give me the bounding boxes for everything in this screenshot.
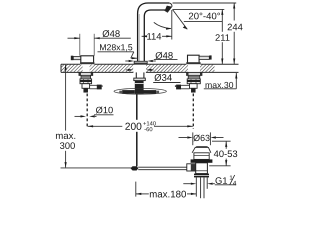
label G1 1/4 bbox=[183, 183, 191, 185]
top extension line bbox=[173, 2, 237, 4]
label 20-40 bbox=[189, 13, 220, 20]
left hose dashed bbox=[86, 94, 88, 127]
angle leader diagonal bbox=[172, 9, 187, 29]
linkage double rod bbox=[138, 166, 187, 168]
left valve lower body bbox=[82, 84, 90, 89]
linkage thin rod left bbox=[61, 167, 132, 169]
lens right nub bbox=[156, 91, 159, 93]
drain flange band bbox=[191, 159, 213, 162]
lens dark bar right bbox=[143, 90, 156, 94]
deck top line bbox=[61, 63, 239, 65]
right valve threads bbox=[188, 75, 200, 79]
drain pivot bbox=[187, 164, 196, 171]
deck hatched zones bbox=[62, 65, 83, 73]
drain plug cap bbox=[195, 146, 208, 150]
left valve flange nut bbox=[79, 72, 93, 75]
lens dark bar left bbox=[122, 90, 135, 94]
right valve bottom tip bbox=[191, 88, 195, 92]
right handle base bbox=[186, 62, 200, 64]
pull rod bbox=[136, 94, 138, 166]
left handle lever arm bbox=[73, 57, 81, 60]
label M28x1,5 bbox=[100, 44, 132, 51]
label O10 bbox=[96, 107, 113, 114]
left valve side pipe bbox=[90, 84, 97, 86]
dimension O48 handle bbox=[79, 34, 81, 56]
spout escutcheon bbox=[134, 61, 147, 64]
right valve hex nut bbox=[187, 79, 200, 84]
angle arc leader bbox=[154, 22, 171, 28]
right handle body bbox=[188, 55, 200, 63]
drain mid body bbox=[196, 163, 208, 174]
dimension O63 bbox=[192, 132, 194, 145]
spout outlet mousseur bbox=[165, 3, 172, 12]
center nut bbox=[135, 81, 144, 89]
spout tube bbox=[138, 3, 170, 64]
drain tailpiece bbox=[195, 177, 197, 196]
left handle base bbox=[80, 62, 94, 64]
outlet extension line bbox=[173, 8, 224, 10]
spout inner shading line bbox=[138, 14, 140, 64]
drain shoulders bbox=[192, 147, 211, 152]
center dark block bbox=[135, 88, 144, 94]
center flange bbox=[134, 78, 146, 81]
dimension 200 bbox=[88, 125, 123, 127]
label max.30 bbox=[206, 82, 234, 88]
left pipe compression nut bbox=[97, 85, 102, 90]
dimension O34 hole bbox=[126, 69, 128, 71]
right valve side pipe bbox=[181, 84, 190, 86]
dimension max.180 bbox=[135, 182, 137, 197]
linkage coupling bbox=[130, 166, 138, 170]
right valve lower body bbox=[190, 84, 198, 89]
right valve flange nut bbox=[187, 72, 202, 75]
dimension O48 escutcheon bbox=[125, 60, 128, 62]
left valve bottom tip bbox=[84, 88, 88, 92]
dimension 114 bbox=[171, 10, 173, 40]
center shank below deck bbox=[135, 72, 137, 78]
lens left nub bbox=[119, 91, 122, 93]
deck bottom line bbox=[61, 71, 239, 73]
right pipe compression nut bbox=[176, 85, 181, 90]
deck left end bbox=[60, 64, 62, 72]
deck hatching bbox=[0, 0, 1, 1]
drain locknut bbox=[194, 174, 209, 178]
right hose dashed bbox=[192, 94, 194, 130]
left valve hex nut bbox=[80, 79, 92, 84]
left handle body bbox=[81, 56, 94, 64]
right handle lever tab bbox=[209, 55, 211, 59]
dimension 211 bbox=[221, 9, 223, 31]
left valve threads bbox=[81, 75, 91, 79]
linkage lens ellipse bbox=[114, 88, 166, 94]
drain upper cylinder bbox=[194, 153, 209, 160]
dimension 40-53 bbox=[212, 140, 231, 142]
dimension 244 bbox=[233, 3, 235, 21]
left handle lever tab bbox=[71, 56, 74, 61]
right handle lever arm bbox=[199, 56, 209, 59]
dimension max.300 bbox=[65, 65, 67, 131]
